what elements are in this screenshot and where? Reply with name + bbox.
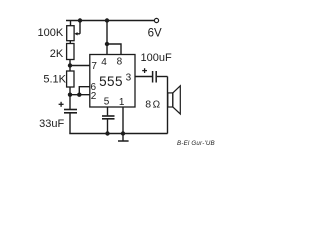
capacitor C1 33uF plates xyxy=(64,109,77,111)
terminal: 6V supply open circle xyxy=(154,18,158,22)
wire: split to pin 8 xyxy=(107,44,121,55)
potentiometer R1 wiper arrow xyxy=(76,33,80,35)
wire: Vcc down to pin 4 xyxy=(106,21,108,55)
wire: node toward pin 2 xyxy=(70,94,90,96)
capacitor C2 pin5 bypass plates xyxy=(102,115,115,117)
junction: pins 2/6 node xyxy=(68,93,72,97)
svg-text:Ω: Ω xyxy=(153,99,161,110)
svg-text:3: 3 xyxy=(126,72,132,83)
resistor R3 5.1K body xyxy=(67,71,74,87)
wire: 100uF to speaker xyxy=(157,76,168,78)
wire: node to pin 7 xyxy=(70,65,90,67)
speaker LS1 cone xyxy=(173,86,181,114)
svg-text:100uF: 100uF xyxy=(141,52,172,64)
svg-text:7: 7 xyxy=(91,61,97,72)
wire: pin 1 to rail xyxy=(122,107,124,134)
svg-text:6V: 6V xyxy=(148,27,162,39)
label: + polarity of 33uF xyxy=(59,102,64,107)
wire: 33uF to bottom rail xyxy=(69,113,71,133)
resistor R2 2K body xyxy=(67,44,74,60)
svg-text:33uF: 33uF xyxy=(39,118,64,130)
svg-text:8: 8 xyxy=(145,99,151,111)
svg-text:5: 5 xyxy=(104,97,110,108)
svg-text:555: 555 xyxy=(99,74,123,89)
junction: pin 6 branch xyxy=(77,93,81,97)
wire: pin 5 to cap xyxy=(107,107,109,115)
junction: pin 7 node xyxy=(68,63,72,67)
junction: 555 supply on top rail xyxy=(105,18,109,22)
wire: wiper to top rail xyxy=(79,21,81,34)
junction: wiper on top rail xyxy=(78,18,82,22)
ground symbol xyxy=(122,134,124,141)
wire: cap to rail xyxy=(107,119,109,133)
junction: pin 5 cap on rail xyxy=(105,131,109,135)
potentiometer R1 100K body xyxy=(67,26,74,41)
wire: ground bottom rail xyxy=(69,133,167,135)
wire: rail to potentiometer top xyxy=(70,21,72,26)
wire: 2K to 5.1K xyxy=(69,60,71,72)
junction: pin 1 / ground on rail xyxy=(121,131,125,135)
svg-text:2: 2 xyxy=(91,91,97,102)
wire: 5.1K to 33uF capacitor xyxy=(69,87,71,109)
svg-text:100K: 100K xyxy=(37,27,63,39)
svg-text:1: 1 xyxy=(119,97,125,108)
svg-text:2K: 2K xyxy=(50,48,64,60)
wire: pin 3 output xyxy=(135,76,152,78)
IC U1 555 timer box xyxy=(90,55,135,108)
wire: pot to 2K xyxy=(69,41,71,44)
svg-text:8: 8 xyxy=(117,57,123,68)
label: + polarity of 100uF xyxy=(142,68,147,73)
wire: branch up to pin 6 xyxy=(79,87,90,95)
wire: speaker vertical xyxy=(167,77,169,134)
speaker LS1 body xyxy=(168,93,173,107)
svg-text:5.1K: 5.1K xyxy=(43,73,66,85)
junction: pin 4/8 split xyxy=(105,42,109,46)
svg-text:4: 4 xyxy=(101,57,107,68)
svg-text:B-El Gur-'UB: B-El Gur-'UB xyxy=(177,140,215,147)
wire: +6V top rail xyxy=(66,20,154,22)
capacitor C3 100uF plates xyxy=(152,71,154,83)
